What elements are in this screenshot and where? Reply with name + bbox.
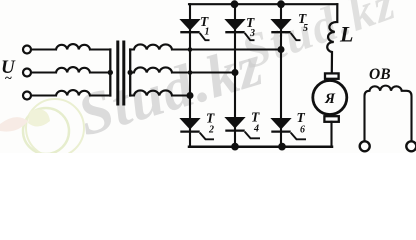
- wire phase C to primary: [31, 94, 56, 96]
- label T5: [298, 11, 308, 34]
- svg-text:2: 2: [208, 125, 214, 136]
- svg-text:ОВ: ОВ: [369, 66, 391, 83]
- label T3: [246, 15, 255, 39]
- core line right: [122, 42, 125, 104]
- primary star wire: [109, 50, 111, 96]
- primary winding c: [56, 90, 90, 95]
- wire phase a to leg3: [172, 48, 281, 50]
- thyristor T3: [225, 20, 254, 41]
- bottom bus wire: [189, 146, 332, 149]
- label T4: [251, 110, 260, 135]
- label T2: [206, 111, 215, 136]
- label U~: [1, 57, 16, 85]
- leg 2 wire: [234, 4, 236, 147]
- thyristor T5: [271, 20, 300, 41]
- motor brush bottom: [324, 116, 338, 122]
- svg-text:T: T: [206, 111, 215, 126]
- secondary winding b: [130, 67, 172, 72]
- crossing blob leg1 row2: [188, 70, 193, 75]
- wire primary b to star: [90, 71, 110, 73]
- watermark logo bottom-left: [0, 99, 84, 157]
- thyristor T2: [180, 119, 214, 140]
- terminal OB right: [406, 141, 416, 151]
- thyristor T4: [225, 118, 260, 139]
- leg 1 wire: [189, 4, 191, 147]
- junction dot star primary: [108, 70, 113, 75]
- wire phase A to primary: [31, 48, 56, 50]
- motor bottom lead: [330, 122, 332, 147]
- svg-text:3: 3: [249, 28, 255, 39]
- thyristor T6: [271, 119, 306, 140]
- label T6: [297, 110, 306, 136]
- secondary winding c: [130, 90, 172, 95]
- top bus wire: [189, 3, 337, 5]
- svg-text:1: 1: [205, 27, 210, 38]
- junction dot bottom bus leg3: [278, 143, 286, 151]
- secondary winding a: [130, 44, 172, 49]
- core line left: [116, 42, 119, 104]
- primary winding b: [56, 67, 90, 72]
- svg-text:4: 4: [253, 124, 259, 135]
- leg 3 wire: [280, 4, 282, 147]
- svg-text:L: L: [339, 22, 353, 47]
- svg-text:5: 5: [303, 23, 308, 34]
- terminal OB left: [360, 141, 370, 151]
- junction dot bottom bus leg2: [231, 143, 239, 151]
- junction dot top bus leg3: [277, 0, 285, 8]
- wire phase c to leg1: [172, 94, 190, 96]
- crossing blob leg1 row1: [188, 47, 193, 52]
- terminal C: [23, 92, 31, 100]
- thyristor T1: [180, 20, 209, 41]
- secondary star wire: [129, 50, 131, 96]
- svg-text:T: T: [251, 110, 260, 125]
- motor brush top: [325, 73, 339, 78]
- inductor L: [327, 4, 337, 73]
- junction dot top bus leg2: [231, 0, 239, 8]
- wire phase b to leg2: [172, 71, 235, 73]
- svg-text:~: ~: [5, 70, 12, 85]
- junction dot phase a / leg3: [278, 46, 285, 53]
- svg-text:T: T: [297, 110, 306, 125]
- wire primary c to star: [90, 94, 110, 96]
- junction dot star secondary: [128, 70, 133, 75]
- junction dot phase b / leg2: [232, 69, 239, 76]
- wire primary a to star: [90, 48, 110, 50]
- terminal B: [23, 69, 31, 77]
- label T1: [200, 14, 210, 38]
- primary winding a: [56, 44, 90, 49]
- excitation winding OB: [365, 86, 412, 142]
- wire phase B to primary: [31, 71, 56, 73]
- terminal A: [23, 46, 31, 54]
- svg-text:Я: Я: [324, 91, 336, 107]
- motor armature circle: [313, 81, 347, 115]
- junction dot phase c / leg1: [187, 92, 194, 99]
- svg-text:6: 6: [300, 125, 305, 136]
